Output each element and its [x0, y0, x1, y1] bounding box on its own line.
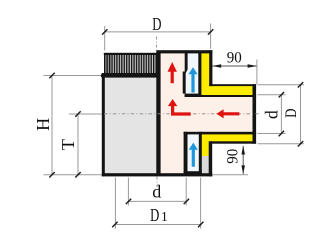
- bottom channel bottom border: [184, 171, 202, 174]
- horizontal centerline: [104, 113, 261, 115]
- gray bottom leg fill: [201, 156, 210, 173]
- dimension T: extension line: [69, 113, 102, 115]
- yellow top leg fill: [200, 53, 210, 95]
- svg-text:D: D: [283, 109, 300, 118]
- red arrow left in pipe: [216, 109, 239, 118]
- yellow bottom leg fill: [201, 133, 210, 157]
- dimension d right: line: [280, 95, 282, 134]
- bottom channel left wall: [184, 132, 188, 175]
- vertical centerline below body: [156, 177, 158, 187]
- dimension D right: line: [300, 85, 302, 144]
- red elbow arrow: [168, 99, 191, 116]
- svg-text:90: 90: [227, 49, 242, 66]
- svg-text:d: d: [152, 182, 161, 202]
- red arrow up in channel: [168, 62, 177, 83]
- pipe right end: [253, 84, 257, 144]
- top leg right edge: [209, 50, 212, 86]
- dimension d bottom: line: [129, 200, 187, 202]
- svg-text:D: D: [152, 14, 161, 34]
- dimension d bottom: ticks: [126, 199, 131, 204]
- body right edge / channel left wall: [156, 53, 160, 175]
- pipe outer bottom line: [210, 141, 256, 143]
- dimension H: ticks: [49, 73, 54, 78]
- dimension d right: extension lines: [258, 94, 286, 96]
- white nozzle channel top fill: [185, 53, 199, 95]
- pipe bore bottom line: [184, 132, 257, 135]
- top edge right section: [156, 50, 212, 53]
- svg-text:d: d: [262, 110, 282, 119]
- dimension 90 bottom: extension line: [213, 174, 248, 176]
- pipe outer top line: [209, 84, 256, 86]
- dimension D top: line: [105, 31, 211, 33]
- top channel bottom border: [185, 94, 202, 97]
- bottom channel right wall: [199, 132, 202, 175]
- pink pipe bore fill: [160, 97, 254, 133]
- cap bottom band: [102, 73, 160, 78]
- svg-text:T: T: [58, 139, 78, 150]
- top channel left wall: [185, 53, 188, 94]
- blue arrow bottom channel: [189, 143, 198, 167]
- bottom extension stubs: [114, 178, 116, 229]
- vertical centerline above cap: [155, 37, 157, 51]
- junction dot: [101, 73, 106, 78]
- dimension D1 bottom: line: [115, 224, 201, 226]
- dimension 90 top: extension line: [256, 60, 258, 85]
- body left edge: [102, 76, 105, 177]
- dimension H: extension lines: [44, 75, 102, 77]
- white nozzle channel bottom fill: [187, 133, 200, 172]
- svg-text:90: 90: [224, 149, 241, 164]
- pipe bore top line: [185, 95, 257, 97]
- gray body fill: [103, 76, 157, 175]
- yellow bottom pipe wall fill: [209, 133, 253, 143]
- blue arrow top channel: [188, 67, 197, 92]
- dimension D1 bottom: ticks: [112, 222, 117, 227]
- dimension D top: extension lines: [104, 26, 106, 51]
- dimension 90 top: line with arrows: [212, 65, 256, 67]
- dimension D right: ticks: [298, 82, 303, 87]
- dimension H: line: [51, 76, 53, 175]
- dimension D top: ticks: [102, 29, 107, 34]
- dimension d right: ticks: [279, 92, 284, 97]
- svg-text:1: 1: [161, 209, 168, 224]
- dimension D right: extension lines: [258, 84, 305, 86]
- dimension 90 bottom: line with arrows: [242, 146, 244, 174]
- dimension T: ticks: [75, 111, 80, 116]
- pink vertical channel fill: [160, 53, 186, 175]
- dimension T: line: [77, 114, 79, 175]
- svg-text:D: D: [150, 205, 159, 225]
- fitting bottom edge: [102, 173, 213, 176]
- yellow top pipe wall fill: [209, 85, 253, 96]
- svg-text:H: H: [33, 118, 53, 131]
- bottom leg right edge: [209, 141, 213, 176]
- knurled cap: [104, 54, 157, 74]
- top channel right wall: [198, 53, 201, 97]
